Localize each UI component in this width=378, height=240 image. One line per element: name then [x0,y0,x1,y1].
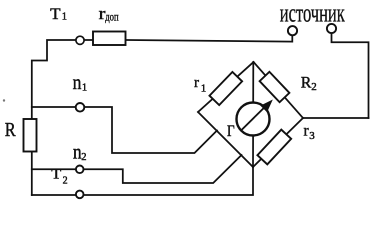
svg-text:Т: Т [50,6,61,23]
galvanometer G circle [237,103,270,136]
wire n2 branch from left bus to bridge lower-left arm [32,155,242,183]
terminal T2 circle [76,191,84,199]
resistor r1 box (rotated on upper-left arm) [209,72,242,105]
wire galvanometer vertical (apex to bottom vertex) [252,62,254,167]
svg-text:r: r [194,75,199,91]
svg-text:2: 2 [81,152,86,163]
wire T1 to left bus (jog down-left) [32,40,76,119]
terminal n1 circle [76,103,85,112]
resistor R box [24,119,37,152]
wire source right terminal to right bus down to bridge right vertex [332,33,369,118]
terminal source left circle [288,26,297,35]
svg-text:3: 3 [309,130,315,142]
svg-text:2: 2 [63,175,68,186]
wire bridge upper-right arm [254,62,304,118]
wire Rdop to source left terminal [126,35,293,41]
wire bridge lower-left arm [198,112,253,167]
terminal source right circle [327,24,336,33]
svg-text:доп: доп [105,12,118,24]
svg-text:Т: Т [51,167,61,183]
svg-text:1: 1 [82,83,87,94]
resistor R2 box (rotated on upper-right arm) [260,72,290,102]
wire bottom from left bus to bridge bottom vertex [32,167,253,195]
terminal T1 circle [76,36,84,44]
svg-text:R: R [5,119,16,141]
wire bridge right vertex to right bus [303,117,369,119]
svg-text:R: R [301,74,312,91]
wire bridge upper-left arm [198,62,254,112]
svg-text:1: 1 [62,11,67,22]
resistor r3 box (rotated on lower-right arm) [257,130,291,165]
svg-text:источник: источник [280,0,345,27]
svg-text:2: 2 [311,81,317,93]
svg-text:Г: Г [227,123,235,140]
svg-text:1: 1 [201,82,207,94]
wire n1 branch from left bus to bridge lower-left arm [32,107,217,153]
svg-text:n: n [73,70,82,94]
galvanometer arrow [241,101,272,131]
scan speck [3,99,5,101]
wire left bus below resistor R [31,152,33,196]
wire bridge lower-right arm [253,118,303,167]
wire T1 terminal to Rdop resistor [85,39,94,41]
resistor Rdop box [93,32,126,46]
terminal n2 circle [76,166,84,174]
